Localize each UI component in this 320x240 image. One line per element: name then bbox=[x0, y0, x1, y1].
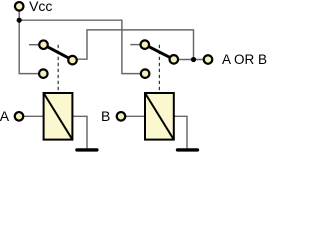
terminal Vcc bbox=[15, 2, 24, 11]
switch S2 contact NC bbox=[141, 40, 150, 49]
wire coil A to ground bbox=[72, 116, 87, 148]
terminal output A OR B bbox=[204, 55, 213, 64]
switch S1 contact NC bbox=[39, 40, 48, 49]
wire output row bbox=[174, 59, 208, 61]
ground GND2 bbox=[176, 148, 199, 151]
label Vcc bbox=[29, 0, 52, 14]
switch S2 arm bbox=[145, 45, 174, 60]
relay coil A bbox=[44, 93, 73, 140]
terminal A bbox=[15, 112, 24, 121]
svg-text:A OR B: A OR B bbox=[222, 52, 267, 67]
wire terminal A to coil A bbox=[19, 115, 44, 117]
wire coil B to ground bbox=[174, 116, 187, 148]
relay coil B bbox=[145, 93, 174, 140]
terminal B bbox=[117, 112, 126, 121]
svg-text:B: B bbox=[101, 108, 110, 124]
ground GND1 bbox=[75, 148, 98, 151]
svg-text:A: A bbox=[0, 108, 10, 124]
label A OR B bbox=[222, 52, 267, 67]
switch S1 pole bbox=[68, 56, 77, 65]
label B bbox=[101, 108, 110, 124]
wire Vcc stem bbox=[18, 7, 20, 20]
switch S2 pole bbox=[170, 55, 179, 64]
wire switch S1 pole to output node bbox=[76, 30, 194, 60]
switch S1 contact NO bbox=[39, 69, 48, 78]
wire stub NC contact S1 bbox=[29, 44, 40, 46]
wire Vcc rail to switch S2 NO contact bbox=[19, 20, 140, 73]
actuator dashed link S1 bbox=[57, 45, 59, 92]
switch S1 arm bbox=[44, 45, 73, 60]
junction node output bbox=[191, 57, 196, 62]
switch S2 contact NO bbox=[141, 69, 150, 78]
wire terminal B to coil B bbox=[121, 115, 145, 117]
wire Vcc branch to switch S1 NO contact bbox=[19, 20, 38, 73]
svg-text:Vcc: Vcc bbox=[29, 0, 52, 14]
wire stub NC contact S2 bbox=[130, 44, 141, 46]
junction node Vcc bbox=[17, 18, 22, 23]
label A bbox=[0, 108, 10, 124]
actuator dashed link S2 bbox=[158, 45, 160, 92]
